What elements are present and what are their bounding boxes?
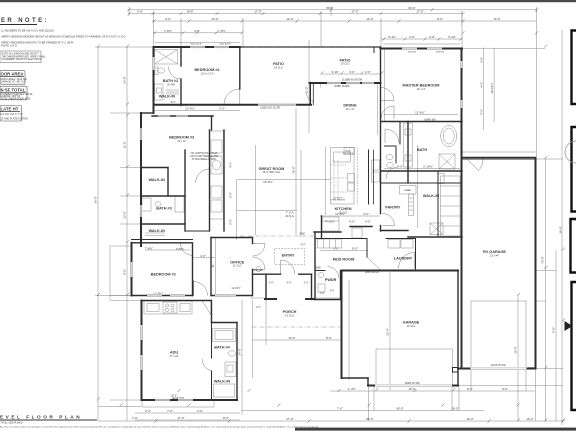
svg-text:AC: The use of these plans an: AC: The use of these plans and drawings … — [0, 425, 320, 428]
svg-text:9'-1 1/8" U.N.O. TYP: 9'-1 1/8" U.N.O. TYP — [1, 113, 23, 116]
svg-text:WALK-IN: WALK-IN — [149, 178, 165, 182]
svg-text:13'-0": 13'-0" — [211, 17, 218, 21]
svg-text:10' CLG: 10' CLG — [341, 63, 350, 66]
svg-text:NOTE: ALL WINDOW AND DOOR T: NOTE: ALL WINDOW AND DOOR T — [2, 53, 40, 56]
svg-text:7'-6": 7'-6" — [337, 407, 343, 411]
svg-text:12' x 11': 12' x 11' — [177, 140, 186, 143]
svg-text:36 VAN: 36 VAN — [167, 84, 175, 87]
svg-text:13' CLG: 13' CLG — [285, 315, 294, 318]
svg-text:19' CLG: 19' CLG — [274, 67, 283, 70]
svg-text:2'-6": 2'-6" — [219, 107, 225, 111]
svg-text:VERIFY WINDOW HEADER HEIGHT W/: VERIFY WINDOW HEADER HEIGHT W/ WINDOW SC… — [1, 35, 125, 39]
svg-text:OPEN SHELVES: OPEN SHELVES — [331, 200, 346, 202]
svg-text:4'-0": 4'-0" — [301, 244, 306, 247]
svg-text:BATH #4: BATH #4 — [214, 346, 230, 350]
svg-text:12080 SLD GL DR: 12080 SLD GL DR — [260, 106, 280, 109]
svg-text:WALK-IN: WALK-IN — [149, 229, 165, 233]
svg-text:GARAGE: GARAGE — [403, 321, 420, 325]
svg-text:13'-6 x 12'-6: 13'-6 x 12'-6 — [200, 73, 214, 76]
svg-text:5'-6": 5'-6" — [349, 219, 355, 223]
svg-text:15' x 44': 15' x 44' — [490, 255, 499, 258]
svg-text:EVEL FLOOR PLAN: EVEL FLOOR PLAN — [0, 414, 82, 419]
svg-text:2'-0": 2'-0" — [304, 281, 309, 284]
svg-text:BEDROOM #4: BEDROOM #4 — [194, 68, 220, 72]
svg-text:13'-0": 13'-0" — [123, 211, 127, 218]
svg-text:2668 SW DR: 2668 SW DR — [365, 271, 379, 274]
svg-text:17'-0": 17'-0" — [177, 416, 184, 420]
svg-text:5068 SW: 5068 SW — [253, 269, 264, 272]
svg-text:4'-6": 4'-6" — [200, 254, 206, 258]
svg-text:2'-0": 2'-0" — [145, 409, 151, 413]
svg-text:3'-10": 3'-10" — [331, 70, 338, 74]
svg-text:BATH: BATH — [417, 148, 428, 152]
svg-text:TOTAL UNDER ROOF: 4916: TOTAL UNDER ROOF: 4916 — [1, 97, 31, 100]
svg-text:8'-0": 8'-0" — [502, 387, 508, 391]
svg-text:BEDROOM #2: BEDROOM #2 — [151, 272, 176, 276]
svg-text:PATIO: PATIO — [273, 62, 284, 66]
svg-text:6'-6": 6'-6" — [137, 10, 143, 14]
svg-text:17'-0": 17'-0" — [416, 10, 423, 14]
svg-text:6080 SLDR: 6080 SLDR — [191, 43, 202, 45]
svg-text:6080 SLDR: 6080 SLDR — [220, 43, 231, 45]
svg-text:10' AND PLATES NOTED: 10' AND PLATES NOTED — [1, 118, 29, 121]
svg-text:8'-6": 8'-6" — [437, 17, 443, 21]
svg-text:1'-4½": 1'-4½" — [348, 387, 356, 391]
svg-text:3'-8": 3'-8" — [409, 35, 415, 39]
svg-text:16'-9½": 16'-9½" — [263, 180, 273, 184]
svg-text:GARAGE HT: 487 S.F.: GARAGE HT: 487 S.F. — [1, 81, 26, 84]
svg-text:2'-6": 2'-6" — [229, 219, 233, 225]
svg-text:2668: 2668 — [299, 233, 305, 236]
svg-text:LINEN: LINEN — [404, 190, 411, 192]
svg-text:16'-0": 16'-0" — [451, 407, 458, 411]
svg-text:PLATE U.N.O.: PLATE U.N.O. — [1, 43, 18, 47]
svg-text:23'-4": 23'-4" — [386, 328, 390, 335]
svg-text:10'-0": 10'-0" — [366, 17, 373, 21]
svg-text:7'-8½": 7'-8½" — [164, 29, 172, 33]
svg-text:MASTER BEDROOM: MASTER BEDROOM — [403, 84, 440, 88]
svg-text:BATH #3: BATH #3 — [156, 207, 172, 211]
svg-text:3'-8": 3'-8" — [429, 35, 435, 39]
svg-text:3'-8": 3'-8" — [194, 29, 200, 33]
svg-text:PWDR: PWDR — [325, 278, 337, 282]
svg-text:WALK-IN: WALK-IN — [423, 194, 439, 198]
svg-text:4'-0": 4'-0" — [365, 219, 371, 223]
svg-text:11': 11' — [211, 264, 215, 268]
svg-text:3'-0": 3'-0" — [479, 57, 483, 63]
svg-text:ATTACHABLE AT WIN.: ATTACHABLE AT WIN. — [192, 158, 217, 161]
svg-text:PANTRY: PANTRY — [385, 206, 401, 210]
svg-text:13'-0": 13'-0" — [288, 336, 295, 340]
svg-text:8'-0": 8'-0" — [552, 327, 556, 333]
svg-text:11' CLG: 11' CLG — [233, 265, 242, 268]
svg-text:OOR AREA: OOR AREA — [1, 72, 24, 77]
svg-text:KITCHEN: KITCHEN — [335, 207, 352, 211]
svg-text:THE OWNER APPROVED. VERIFY FIN: THE OWNER APPROVED. VERIFY FINAL — [2, 55, 47, 58]
svg-text:2'-0": 2'-0" — [256, 306, 261, 309]
svg-text:DINING: DINING — [343, 104, 356, 108]
svg-text:9'-0": 9'-0" — [229, 192, 233, 198]
svg-text:PORCH: PORCH — [283, 310, 297, 314]
svg-text:3'-0": 3'-0" — [363, 212, 369, 216]
svg-text:86'-6": 86'-6" — [326, 6, 333, 10]
svg-text:8'-0": 8'-0" — [123, 269, 127, 275]
svg-text:19'-0": 19'-0" — [292, 166, 296, 173]
svg-text:4'-6": 4'-6" — [479, 82, 483, 88]
svg-text:8'-0": 8'-0" — [467, 387, 473, 391]
svg-text:2'-0": 2'-0" — [269, 281, 274, 284]
svg-text:5'-10": 5'-10" — [388, 35, 395, 39]
svg-text:7'-0": 7'-0" — [167, 409, 173, 413]
svg-text:27'-0": 27'-0" — [286, 417, 293, 421]
svg-text:3'-6": 3'-6" — [349, 70, 355, 74]
svg-text:24'-0": 24'-0" — [123, 76, 127, 83]
svg-text:2'-0": 2'-0" — [132, 416, 138, 420]
svg-text:2'-0": 2'-0" — [197, 409, 203, 413]
svg-text:(5.3)BB W/ 5/8 DW: (5.3)BB W/ 5/8 DW — [342, 79, 363, 82]
svg-text:36'-0": 36'-0" — [94, 196, 98, 203]
svg-text:24'-0": 24'-0" — [238, 348, 242, 355]
svg-text:63'-0": 63'-0" — [408, 6, 415, 10]
svg-text:LATE HT: LATE HT — [1, 107, 19, 112]
svg-text:4'-10½": 4'-10½" — [325, 219, 335, 223]
svg-text:84'-6": 84'-6" — [366, 417, 373, 421]
svg-text:2'-8": 2'-8" — [320, 292, 325, 295]
svg-text:34'-0": 34'-0" — [559, 226, 563, 233]
svg-text:10'-10½": 10'-10½" — [490, 82, 494, 93]
svg-text:5'-0": 5'-0" — [287, 281, 292, 284]
svg-text:3'-0": 3'-0" — [397, 165, 403, 169]
svg-text:6040 SH: 6040 SH — [408, 52, 417, 54]
svg-text:WALK-IN: WALK-IN — [159, 95, 175, 99]
svg-text:17'-0": 17'-0" — [351, 10, 358, 14]
svg-text:BATH #2: BATH #2 — [163, 79, 179, 83]
svg-text:6040 SH: 6040 SH — [436, 52, 445, 54]
svg-text:14'-0": 14'-0" — [466, 417, 473, 421]
svg-text:3'-0": 3'-0" — [333, 247, 339, 251]
svg-text:16'-0": 16'-0" — [514, 346, 518, 353]
svg-text:4'-6": 4'-6" — [229, 162, 233, 168]
svg-text:70'-0": 70'-0" — [541, 256, 545, 263]
svg-text:17' x 24': 17' x 24' — [170, 355, 179, 358]
svg-text:LL HEADERS TO BE 4x6 U.N.O AND: LL HEADERS TO BE 4x6 U.N.O AND (2)2x10 — [1, 29, 54, 33]
svg-text:4'-6": 4'-6" — [330, 290, 335, 293]
svg-text:ER NOTE:: ER NOTE: — [1, 18, 49, 24]
svg-text:PLACEMENT PRIOR TO ELECTRICAL: PLACEMENT PRIOR TO ELECTRICAL — [2, 58, 43, 61]
svg-text:8'-0": 8'-0" — [352, 247, 358, 251]
svg-text:23' CLG: 23' CLG — [407, 325, 416, 328]
svg-text:11'-0": 11'-0" — [123, 141, 127, 148]
svg-text:" (FULL SIZE PLANS): " (FULL SIZE PLANS) — [0, 422, 23, 425]
svg-text:ADU: ADU — [170, 351, 178, 355]
svg-text:BEDROOM #3: BEDROOM #3 — [169, 136, 194, 140]
svg-text:12'-6½": 12'-6½" — [185, 107, 195, 111]
svg-text:RV GARAGE: RV GARAGE — [483, 250, 506, 254]
svg-text:16'-0": 16'-0" — [408, 387, 415, 391]
svg-text:20 S.A.: 20 S.A. — [285, 214, 295, 218]
svg-text:WALK-IN: WALK-IN — [214, 380, 230, 384]
svg-text:9'-0": 9'-0" — [171, 101, 176, 104]
svg-text:4'-6": 4'-6" — [479, 109, 483, 115]
svg-text:7'-8½": 7'-8½" — [218, 29, 226, 33]
svg-text:8'-0": 8'-0" — [326, 336, 332, 340]
svg-text:11'-10½": 11'-10½" — [231, 286, 240, 290]
svg-text:2468: 2468 — [315, 267, 321, 270]
svg-text:17'-0": 17'-0" — [254, 10, 261, 14]
svg-text:12'-0": 12'-0" — [286, 17, 293, 21]
svg-text:16' CLG: 16' CLG — [339, 212, 348, 215]
svg-text:N SF TOTAL: N SF TOTAL — [1, 87, 26, 92]
svg-text:11'-0": 11'-0" — [305, 86, 309, 93]
svg-text:60'-0": 60'-0" — [396, 407, 403, 411]
svg-text:12' x 11': 12' x 11' — [346, 108, 355, 111]
svg-text:10'-0": 10'-0" — [526, 417, 533, 421]
svg-text:2'-10½": 2'-10½" — [423, 165, 433, 169]
svg-text:14'-6": 14'-6" — [493, 17, 500, 21]
svg-text:8'-0": 8'-0" — [223, 416, 229, 420]
svg-text:12'-6½": 12'-6½" — [415, 111, 425, 115]
svg-text:14012 OH DR: 14012 OH DR — [490, 364, 505, 367]
svg-text:5'-10": 5'-10" — [448, 35, 455, 39]
svg-text:7'-8½": 7'-8½" — [145, 247, 153, 251]
svg-text:ENTRY: ENTRY — [282, 254, 295, 258]
svg-text:19'-6": 19'-6" — [186, 10, 193, 14]
svg-text:16' x 14': 16' x 14' — [417, 88, 426, 91]
svg-text:LAUNDRY: LAUNDRY — [394, 257, 413, 261]
svg-text:9'-6": 9'-6" — [165, 17, 171, 21]
svg-text:16'-9 TRAY CLG: 16'-9 TRAY CLG — [263, 171, 281, 174]
svg-text:MUD ROOM: MUD ROOM — [333, 258, 355, 262]
svg-text:2'-6": 2'-6" — [365, 70, 371, 74]
